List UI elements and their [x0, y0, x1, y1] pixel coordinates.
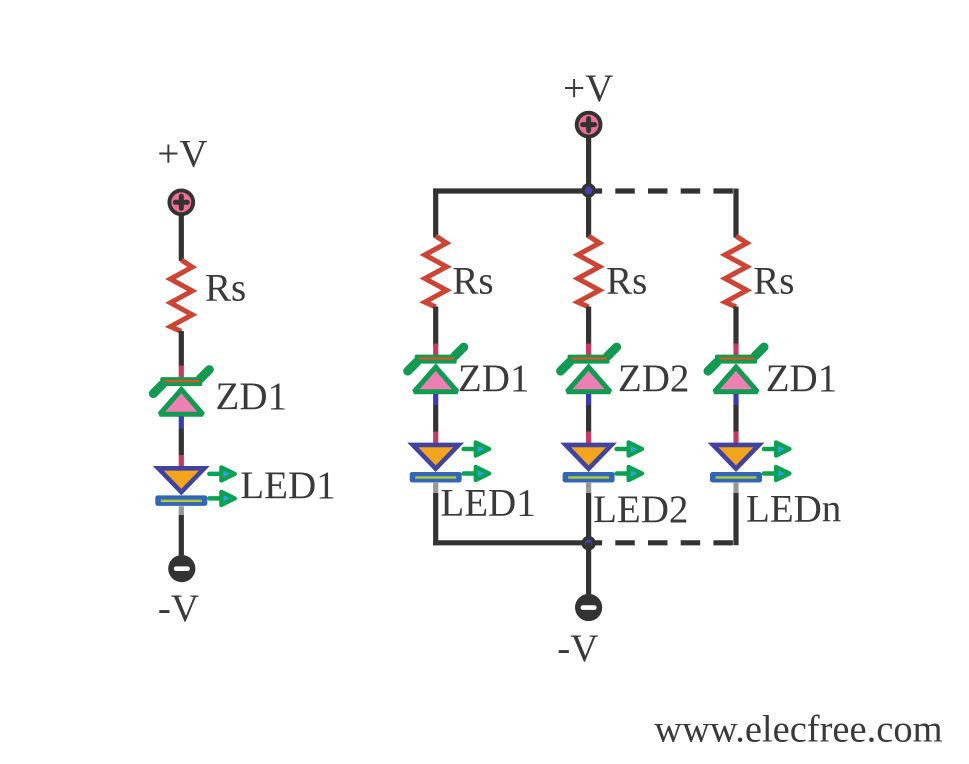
wire: bottom bus dashed segment [589, 540, 739, 545]
wire: zener to LED (branch 1) [433, 405, 438, 432]
LED LED2 (branch 2) [563, 442, 643, 482]
svg-text:LED1: LED1 [440, 482, 535, 525]
zener diode ZD1 (branch 1) [408, 347, 464, 392]
wire: zener to LED (branch 2) [586, 405, 591, 432]
resistor Rs (left) [170, 260, 192, 331]
wire segment crimson above LED (left) [179, 455, 184, 467]
wire: zener to LED (left) [179, 429, 184, 456]
wire: bottom bus solid segment [433, 540, 588, 545]
resistor Rs (branch 1) [425, 236, 447, 307]
svg-text:LED2: LED2 [593, 488, 688, 531]
wire: resistor to zener (branch 1) [433, 307, 438, 346]
svg-text:+V: +V [157, 133, 207, 176]
LED LED1 (left) [155, 467, 235, 506]
wire segment blue below zener (left) [179, 417, 184, 429]
negative supply terminal (right) [575, 594, 602, 621]
wire: top bus solid segment [433, 188, 588, 193]
wire segment gray below LED (branch 3) [733, 483, 738, 493]
negative supply terminal (left) [168, 555, 195, 582]
wire segment crimson above LED (branch 3) [733, 432, 738, 444]
svg-text:ZD1: ZD1 [458, 357, 530, 400]
wire segment blue below zener (branch 2) [586, 394, 591, 405]
wire: bottom bus node to minus terminal (right) [586, 543, 591, 594]
svg-text:ZD2: ZD2 [618, 357, 690, 400]
wire segment crimson (left) [179, 366, 184, 379]
zener diode ZD1 (left) [153, 370, 209, 415]
wire: resistor to zener (branch 3) [733, 307, 738, 346]
LED LEDn (branch 3) [710, 442, 790, 482]
wire: plus terminal to top bus node (right) [586, 137, 591, 191]
svg-text:LEDn: LEDn [746, 487, 841, 530]
svg-text:Rs: Rs [452, 259, 493, 302]
wire segment crimson above LED (branch 2) [586, 432, 591, 444]
wire: resistor to zener (branch 2) [586, 307, 591, 346]
positive supply terminal (left) [169, 190, 193, 214]
wire segment gray below LED (branch 1) [433, 483, 438, 493]
svg-text:Rs: Rs [606, 259, 647, 302]
wire: branch 3 top drop [733, 189, 738, 238]
wire segment crimson (branch 3) [733, 344, 738, 356]
svg-text:-V: -V [557, 627, 598, 670]
wire: LED to minus terminal (left) [179, 515, 184, 555]
wire segment crimson (branch 2) [586, 344, 591, 356]
svg-text:Rs: Rs [753, 259, 794, 302]
svg-text:www.elecfree.com: www.elecfree.com [654, 708, 942, 750]
wire: plus terminal to resistor (left) [179, 215, 184, 261]
wire: resistor to zener (left) [179, 331, 184, 367]
LED LED1 (branch 1) [410, 442, 490, 482]
svg-text:ZD1: ZD1 [216, 375, 288, 418]
svg-text:LED1: LED1 [240, 464, 335, 507]
svg-text:Rs: Rs [205, 267, 246, 310]
wire: top bus dashed segment [589, 188, 739, 193]
positive supply terminal (right) [577, 113, 601, 137]
wire segment crimson (branch 1) [433, 344, 438, 356]
wire: LED to bottom bus (branch 1) [433, 493, 438, 545]
junction node top bus node [581, 183, 595, 197]
junction node bottom bus node [581, 536, 595, 550]
resistor Rs (branch 2) [578, 236, 600, 307]
svg-text:-V: -V [158, 587, 199, 630]
wire segment blue below zener (branch 3) [733, 394, 738, 405]
resistor Rs (branch 3) [725, 236, 747, 307]
wire: LED to bottom bus (branch 3) [733, 493, 738, 545]
wire: branch 2 top drop [586, 191, 591, 238]
zener diode ZD1 (branch 3) [708, 347, 764, 392]
svg-text:+V: +V [563, 67, 613, 110]
wire segment gray below LED (left) [179, 506, 184, 515]
svg-text:ZD1: ZD1 [766, 357, 838, 400]
wire segment blue below zener (branch 1) [433, 394, 438, 405]
wire: branch 1 top drop [433, 189, 438, 238]
wire: zener to LED (branch 3) [733, 405, 738, 432]
zener diode ZD2 (branch 2) [561, 347, 617, 392]
wire segment gray below LED (branch 2) [586, 483, 591, 493]
wire segment crimson above LED (branch 1) [433, 432, 438, 444]
wire: LED to bottom bus (branch 2) [586, 493, 591, 545]
